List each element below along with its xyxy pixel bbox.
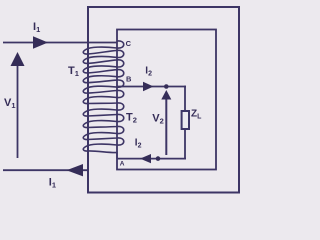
svg-text:A: A	[120, 160, 125, 167]
voltage arrow V1 (pointing up)	[17, 62, 19, 158]
wire: bottom-left return wire	[3, 169, 89, 171]
svg-text:B: B	[126, 75, 132, 84]
current arrow I1 (top, pointing right)	[33, 36, 48, 49]
junction node dot (top of V2)	[164, 84, 169, 89]
autotransformer winding C-B-A (T1 upper, T2 lower)	[83, 41, 123, 159]
wire: secondary bottom wire back to node A	[117, 158, 186, 160]
svg-text:C: C	[126, 39, 132, 48]
load impedance ZL	[182, 111, 189, 129]
voltage arrow V2 (pointing up)	[165, 97, 167, 155]
wire: top-left input wire to node C	[3, 42, 117, 44]
wire: tap B to load (secondary top)	[117, 86, 186, 88]
current arrow I1 (bottom, pointing left)	[67, 164, 84, 176]
current arrow I2 (bottom, pointing left)	[140, 154, 151, 163]
junction node dot (bottom of V2)	[156, 156, 161, 161]
current arrow I2 (top, pointing right)	[143, 82, 154, 91]
outer enclosure box	[88, 7, 239, 193]
inner enclosure box	[117, 30, 216, 170]
wire: load branch right side upper	[184, 86, 186, 112]
wire: load branch right side lower	[184, 129, 186, 160]
